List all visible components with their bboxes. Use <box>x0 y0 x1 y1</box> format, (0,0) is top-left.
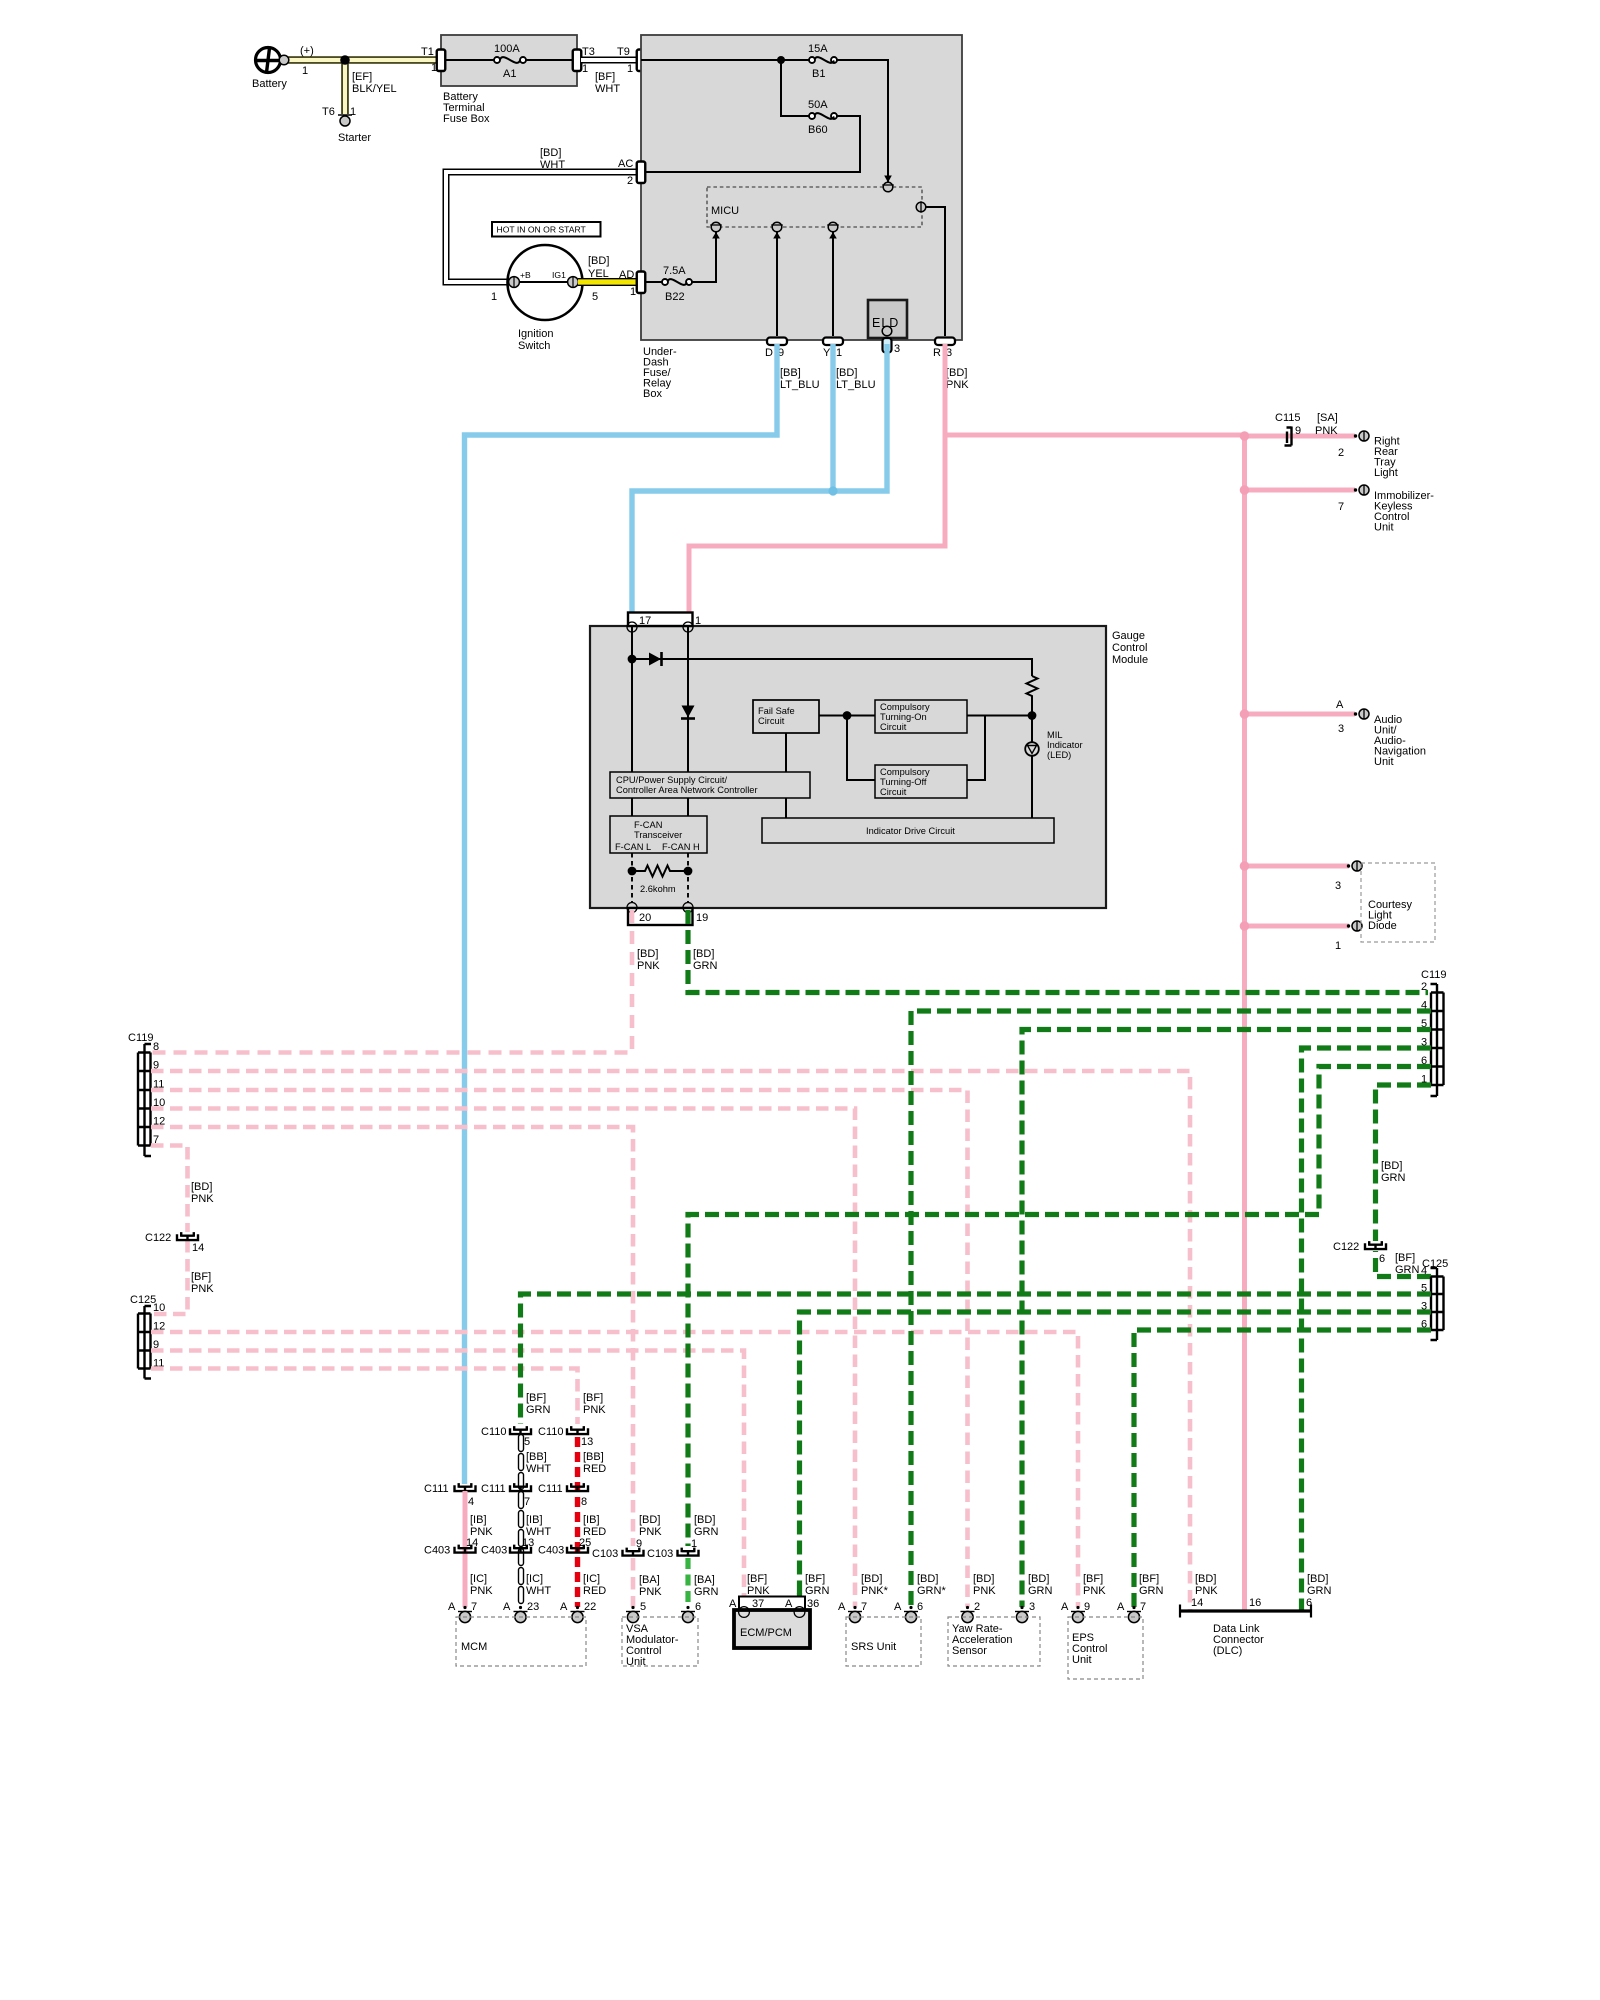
svg-text:Switch: Switch <box>518 340 550 352</box>
svg-text:Light: Light <box>1374 467 1398 479</box>
svg-text:1: 1 <box>627 63 633 75</box>
svg-text:7: 7 <box>471 1601 477 1613</box>
wire C119-12 to C103 / VSA <box>151 1127 633 1546</box>
svg-text:MICU: MICU <box>711 205 739 217</box>
wire C119-9 to DLC 14 <box>151 1071 1190 1611</box>
svg-text:Transceiver: Transceiver <box>634 830 682 840</box>
svg-text:C122: C122 <box>145 1232 171 1244</box>
battery terminal fuse box <box>441 35 577 86</box>
courtesy light diode box <box>1361 863 1435 942</box>
svg-text:[BF]: [BF] <box>595 71 615 83</box>
junction battery/starter <box>340 55 350 65</box>
wire pin1 down <box>687 626 689 772</box>
junction node B1/B60 <box>777 56 785 64</box>
svg-text:AD: AD <box>619 269 634 281</box>
svg-text:1: 1 <box>431 62 437 74</box>
svg-text:[BF]: [BF] <box>747 1573 767 1585</box>
top pin connector 17/1 <box>628 613 693 627</box>
svg-text:Indicator: Indicator <box>1047 740 1083 750</box>
wire fail safe down to CPU <box>785 733 787 772</box>
connector T1 <box>437 50 446 72</box>
connector C403 pin 13 <box>510 1545 531 1554</box>
svg-text:[BD]: [BD] <box>637 948 658 960</box>
wire C119r-4 to SRS green <box>911 1011 1431 1607</box>
svg-text:9: 9 <box>1295 425 1301 437</box>
wire C119r-1 to C122 to C125r-4 <box>1376 1085 1432 1277</box>
wire C125-11 to C110 / MCM red column <box>151 1369 578 1425</box>
wire C119-10 to SRS <box>151 1109 855 1608</box>
svg-text:[BB]: [BB] <box>583 1451 604 1463</box>
svg-text:GRN: GRN <box>694 1526 719 1538</box>
svg-text:22: 22 <box>584 1601 596 1613</box>
svg-text:[BD]: [BD] <box>1381 1160 1402 1172</box>
svg-text:7: 7 <box>524 1496 530 1508</box>
svg-text:[BD]: [BD] <box>917 1573 938 1585</box>
svg-text:14: 14 <box>192 1242 204 1254</box>
SEC-G bottom components <box>424 1392 1332 1679</box>
CPU box <box>610 772 810 798</box>
F-CAN L node <box>628 867 637 876</box>
SRS box <box>846 1617 921 1666</box>
ECM terminal 37 <box>739 1607 750 1618</box>
fail safe circuit box <box>753 700 819 733</box>
terminal MCM A7 <box>458 1606 472 1623</box>
fuse B60 50A <box>809 113 815 119</box>
svg-text:Battery: Battery <box>252 78 287 90</box>
svg-text:C403: C403 <box>424 1545 450 1557</box>
svg-text:MIL: MIL <box>1047 730 1063 740</box>
svg-text:PNK: PNK <box>1195 1585 1218 1597</box>
svg-text:[BD]: [BD] <box>946 367 967 379</box>
svg-text:WHT: WHT <box>526 1585 551 1597</box>
svg-text:RED: RED <box>583 1463 606 1475</box>
F-CAN transceiver box <box>610 816 707 853</box>
connector C103 pin 9 <box>623 1548 644 1557</box>
wire C119r-5 to yaw green <box>1022 1030 1431 1608</box>
ignition switch <box>508 245 583 320</box>
svg-text:PNK: PNK <box>191 1193 214 1205</box>
wire on-circuit to LED node <box>967 715 1032 717</box>
connector C103 pin 1 <box>678 1548 699 1557</box>
svg-text:17: 17 <box>639 615 651 627</box>
svg-text:5: 5 <box>640 1601 646 1613</box>
svg-text:[BD]: [BD] <box>861 1573 882 1585</box>
svg-text:[BD]: [BD] <box>694 1514 715 1526</box>
svg-text:BLK/YEL: BLK/YEL <box>352 83 397 95</box>
svg-text:1: 1 <box>1335 940 1341 952</box>
connector C122 (left) 14 <box>177 1232 198 1241</box>
svg-text:6: 6 <box>1379 1253 1385 1265</box>
MICU terminal right (to R) <box>916 202 926 212</box>
svg-text:[BF]: [BF] <box>1083 1573 1103 1585</box>
svg-text:[SA]: [SA] <box>1317 412 1338 424</box>
rail branch right rear tray light <box>1245 434 1356 439</box>
terminal VSA 6 <box>681 1606 695 1623</box>
connector C110 pin 13 <box>567 1426 588 1435</box>
svg-text:GRN: GRN <box>526 1404 551 1416</box>
svg-text:(+): (+) <box>300 45 314 57</box>
terminal courtesy diode pin 3 <box>1347 861 1362 871</box>
svg-text:20: 20 <box>639 912 651 924</box>
svg-text:[IC]: [IC] <box>470 1573 487 1585</box>
svg-text:Circuit: Circuit <box>880 787 907 797</box>
svg-text:HOT IN ON OR START: HOT IN ON OR START <box>497 225 587 235</box>
bottom pin connector 20/19 <box>628 908 693 925</box>
rail branch immobilizer <box>1245 488 1356 493</box>
svg-text:Starter: Starter <box>338 132 371 144</box>
svg-text:A: A <box>560 1601 568 1613</box>
svg-text:1: 1 <box>836 347 842 359</box>
svg-text:Unit: Unit <box>1374 756 1394 768</box>
terminal EPS A9 <box>1071 1606 1085 1623</box>
svg-text:LT_BLU: LT_BLU <box>780 379 820 391</box>
SEC-C wires from box down, right pink rail and right components <box>465 344 1436 1611</box>
svg-text:[BA]: [BA] <box>694 1574 715 1586</box>
svg-text:RED: RED <box>583 1585 606 1597</box>
svg-text:Unit: Unit <box>1374 522 1394 534</box>
svg-text:PNK*: PNK* <box>861 1585 889 1597</box>
wire gauge pin 19 to C119 pin 2 <box>688 910 1428 993</box>
svg-text:[BF]: [BF] <box>1395 1252 1415 1264</box>
svg-text:2.6kohm: 2.6kohm <box>640 884 676 894</box>
svg-text:PNK: PNK <box>639 1586 662 1598</box>
wire MICU to R pin <box>926 207 945 336</box>
svg-text:C110: C110 <box>481 1426 506 1438</box>
indicator drive circuit box <box>762 818 1054 843</box>
svg-text:[BF]: [BF] <box>191 1271 211 1283</box>
wire AC white: box to ignition <box>446 172 637 282</box>
connector C110 pin 5 <box>510 1426 531 1435</box>
wire patch ECM 36 <box>797 1593 802 1609</box>
svg-text:A1: A1 <box>503 68 516 80</box>
svg-text:GRN: GRN <box>1381 1172 1406 1184</box>
EPS box <box>1068 1617 1143 1679</box>
wire CPU to indicator drive <box>785 798 787 818</box>
rail branch audio <box>1245 712 1356 717</box>
wires CPU to F-CAN <box>632 798 688 816</box>
svg-text:50A: 50A <box>808 99 828 111</box>
MICU terminal bottom 2 (to D) <box>772 222 782 232</box>
wire pin17 down <box>631 626 633 772</box>
svg-text:7: 7 <box>861 1601 867 1613</box>
resistor R1 <box>1027 676 1038 716</box>
svg-text:7.5A: 7.5A <box>663 265 686 277</box>
svg-text:ECM/PCM: ECM/PCM <box>740 1627 792 1639</box>
terminal MCM A22 <box>571 1606 585 1623</box>
wire MICU to Y pin <box>832 232 834 336</box>
ECM connector row <box>739 1597 805 1611</box>
svg-text:[BF]: [BF] <box>805 1573 825 1585</box>
svg-text:(LED): (LED) <box>1047 750 1071 760</box>
svg-text:PNK: PNK <box>747 1585 770 1597</box>
svg-text:GRN: GRN <box>805 1585 830 1597</box>
svg-text:7: 7 <box>1338 501 1344 513</box>
svg-text:C403: C403 <box>481 1545 507 1557</box>
wire gauge pin 20 to C119 pin 8 <box>151 910 632 1053</box>
svg-text:+B: +B <box>520 270 531 280</box>
DLC connector bar <box>1180 1609 1311 1612</box>
wire MICU to D pin <box>776 232 778 336</box>
svg-text:13: 13 <box>581 1436 593 1448</box>
wire IB PNK <box>463 1491 468 1607</box>
svg-text:A: A <box>1117 1601 1125 1613</box>
wire D to MCM: blue long run <box>465 344 778 1484</box>
svg-text:1: 1 <box>302 65 308 77</box>
svg-text:[IB]: [IB] <box>583 1514 600 1526</box>
svg-text:Unit: Unit <box>1072 1654 1092 1666</box>
svg-text:16: 16 <box>1249 1597 1261 1609</box>
svg-text:C119: C119 <box>1421 969 1446 981</box>
svg-text:B22: B22 <box>665 291 685 303</box>
svg-text:[EF]: [EF] <box>352 71 372 83</box>
svg-text:Fuse Box: Fuse Box <box>443 113 490 125</box>
wire battery to T1 (BLK/YEL) <box>283 56 437 64</box>
svg-text:Turning-Off: Turning-Off <box>880 777 927 787</box>
svg-text:15A: 15A <box>808 43 828 55</box>
junction blue <box>828 486 837 495</box>
wire fail safe to junction <box>819 715 875 717</box>
HOT IN ON OR START <box>492 222 601 237</box>
compulsory turning-off circuit box <box>875 765 967 798</box>
svg-text:Ignition: Ignition <box>518 328 553 340</box>
wire T3 to T9 (WHT) <box>581 57 637 64</box>
svg-text:Control: Control <box>1112 642 1147 654</box>
wire R pink down and to rail <box>689 344 945 623</box>
terminal immobilizer pin 7 <box>1354 485 1369 495</box>
svg-text:6: 6 <box>1306 1597 1312 1609</box>
svg-text:(DLC): (DLC) <box>1213 1645 1242 1657</box>
svg-text:C103: C103 <box>592 1548 618 1560</box>
svg-text:F-CAN L: F-CAN L <box>615 842 651 852</box>
svg-text:5: 5 <box>592 291 598 303</box>
wire BA GRN <box>685 1558 690 1607</box>
svg-text:C103: C103 <box>647 1548 673 1560</box>
svg-text:1: 1 <box>695 615 701 627</box>
svg-text:SRS Unit: SRS Unit <box>851 1641 896 1653</box>
VSA box <box>622 1617 698 1666</box>
dashed wires below F-CAN <box>632 853 688 903</box>
pin R 3 <box>935 338 955 346</box>
SEC-B under-dash fuse box and internals <box>618 35 962 400</box>
starter terminal T6 <box>338 114 352 116</box>
svg-text:Fail Safe: Fail Safe <box>758 706 795 716</box>
svg-text:4: 4 <box>468 1496 474 1508</box>
svg-text:C119: C119 <box>128 1032 153 1044</box>
svg-text:C403: C403 <box>538 1545 564 1557</box>
svg-text:A: A <box>503 1601 511 1613</box>
right pink rail down to DLC 16 <box>1242 435 1247 1611</box>
svg-text:[BF]: [BF] <box>526 1392 546 1404</box>
terminal courtesy diode pin 1 <box>1347 921 1362 931</box>
svg-text:A: A <box>448 1601 456 1613</box>
svg-text:1: 1 <box>691 1538 697 1550</box>
connector C115 <box>1285 427 1292 446</box>
svg-text:AC: AC <box>618 158 633 170</box>
svg-text:[BF]: [BF] <box>583 1392 603 1404</box>
svg-text:[BD]: [BD] <box>191 1181 212 1193</box>
svg-text:C111: C111 <box>481 1483 506 1495</box>
connector C403 pin 14 <box>455 1545 476 1554</box>
ELD terminal <box>882 326 892 336</box>
svg-text:1: 1 <box>630 286 636 298</box>
under-dash fuse/relay box <box>641 35 962 340</box>
wire Y to blue junction <box>830 344 835 491</box>
wire inside battery fuse box <box>441 59 577 61</box>
svg-text:[BD]: [BD] <box>836 367 857 379</box>
svg-text:[IC]: [IC] <box>526 1573 543 1585</box>
svg-text:10: 10 <box>153 1302 165 1314</box>
svg-text:[IC]: [IC] <box>583 1573 600 1585</box>
wire BB RED <box>575 1437 580 1607</box>
connector T9 <box>637 50 646 72</box>
svg-text:Unit: Unit <box>626 1656 646 1668</box>
terminal SRS A6 <box>904 1606 918 1623</box>
svg-text:PNK: PNK <box>1315 425 1338 437</box>
diode D1 right <box>632 659 1032 676</box>
svg-text:F-CAN: F-CAN <box>634 820 662 830</box>
svg-text:[BD]: [BD] <box>639 1514 660 1526</box>
wire BA PNK <box>631 1558 636 1607</box>
terminal EPS A7 <box>1127 1606 1141 1623</box>
svg-text:1: 1 <box>350 106 356 118</box>
svg-text:B1: B1 <box>812 68 825 80</box>
connector C122 (right) 6 <box>1365 1241 1386 1250</box>
svg-text:Y: Y <box>823 347 831 359</box>
svg-text:F-CAN H: F-CAN H <box>662 842 700 852</box>
svg-text:6: 6 <box>695 1601 701 1613</box>
rail branch courtesy diode 1 <box>1245 924 1350 929</box>
svg-text:3: 3 <box>1338 723 1344 735</box>
wire junction down to off-circuit <box>847 716 875 781</box>
svg-text:Compulsory: Compulsory <box>880 767 930 777</box>
svg-text:C111: C111 <box>538 1483 563 1495</box>
svg-text:1: 1 <box>491 291 497 303</box>
svg-text:Circuit: Circuit <box>758 716 785 726</box>
svg-text:C122: C122 <box>1333 1241 1359 1253</box>
svg-text:MCM: MCM <box>461 1641 487 1653</box>
pin Y 1 <box>823 338 843 346</box>
terminal SRS A7 <box>848 1606 862 1623</box>
wire B60 branch <box>645 60 860 172</box>
svg-text:14: 14 <box>1191 1597 1203 1609</box>
connector C111 pin 8 <box>567 1483 588 1492</box>
MICU terminal top (from B1) <box>883 182 893 192</box>
F-CAN H node <box>684 867 693 876</box>
wire ELD 3 to gauge 17 blue <box>632 344 887 623</box>
connector AC pin 2 <box>637 162 646 184</box>
svg-text:Controller Area Network Contro: Controller Area Network Controller <box>616 785 758 795</box>
svg-text:[BA]: [BA] <box>639 1574 660 1586</box>
svg-text:2: 2 <box>1338 447 1344 459</box>
wire LED to indicator drive <box>1031 756 1033 818</box>
terminal MCM A23 <box>514 1606 528 1623</box>
connector C111 pin 7 <box>510 1483 531 1492</box>
svg-text:2: 2 <box>974 1601 980 1613</box>
svg-text:GRN: GRN <box>693 960 718 972</box>
fuse A1 100A <box>494 57 500 63</box>
svg-text:WHT: WHT <box>595 83 620 95</box>
wire C125-9 to ECM 37 <box>151 1351 744 1606</box>
svg-text:19: 19 <box>696 912 708 924</box>
svg-text:PNK: PNK <box>637 960 660 972</box>
ECM/PCM box <box>734 1610 810 1648</box>
resistor 2.6kohm <box>632 866 688 877</box>
svg-text:8: 8 <box>581 1496 587 1508</box>
svg-text:23: 23 <box>527 1601 539 1613</box>
svg-text:T3: T3 <box>582 46 595 58</box>
svg-text:[BD]: [BD] <box>540 147 561 159</box>
wire T9 to B1 fuse to MICU <box>641 60 888 182</box>
svg-text:PNK: PNK <box>973 1585 996 1597</box>
svg-text:C111: C111 <box>424 1483 449 1495</box>
fuse B1 15A <box>809 57 815 63</box>
rail branch courtesy diode 3 <box>1245 864 1350 869</box>
terminal yaw 2 <box>961 1606 975 1623</box>
svg-text:Circuit: Circuit <box>880 722 907 732</box>
svg-text:Gauge: Gauge <box>1112 630 1145 642</box>
svg-text:T6: T6 <box>322 106 335 118</box>
svg-text:3: 3 <box>894 343 900 355</box>
ECM terminal 36 <box>794 1607 805 1618</box>
wire C119-7 to C122 to C125-10 <box>151 1146 188 1315</box>
svg-text:LT_BLU: LT_BLU <box>836 379 876 391</box>
svg-text:1: 1 <box>582 63 588 75</box>
svg-text:PNK: PNK <box>639 1526 662 1538</box>
SEC-A battery / starter / ignition <box>252 35 645 352</box>
svg-text:5: 5 <box>524 1436 530 1448</box>
svg-text:PNK: PNK <box>1083 1585 1106 1597</box>
wire IG1 to AD (YEL) <box>578 278 637 286</box>
svg-text:4: 4 <box>1421 1265 1427 1277</box>
wire C125-12 to EPS <box>151 1332 1078 1607</box>
svg-text:Turning-On: Turning-On <box>880 712 927 722</box>
wire C125r-5 to C110 / MCM white column <box>521 1294 1432 1424</box>
svg-text:[BD]: [BD] <box>973 1573 994 1585</box>
wire C119-11 to yaw sensor <box>151 1090 968 1607</box>
svg-text:R: R <box>933 347 941 359</box>
svg-text:GRN: GRN <box>1028 1585 1053 1597</box>
connector T3 <box>573 50 582 72</box>
svg-text:C110: C110 <box>538 1426 563 1438</box>
wire off-circuit up to node <box>967 716 985 781</box>
svg-text:D: D <box>765 347 773 359</box>
svg-text:100A: 100A <box>494 43 520 55</box>
connector C111 pin 4 <box>455 1483 476 1492</box>
svg-text:Module: Module <box>1112 654 1148 666</box>
svg-text:PNK: PNK <box>583 1404 606 1416</box>
connector C403 pin 25 <box>567 1545 588 1554</box>
SEC-D gauge control module <box>590 613 1148 926</box>
svg-text:GRN: GRN <box>1139 1585 1164 1597</box>
junction R1/LED <box>1028 711 1037 720</box>
svg-text:Compulsory: Compulsory <box>880 702 930 712</box>
svg-text:B60: B60 <box>808 124 828 136</box>
svg-text:Indicator Drive Circuit: Indicator Drive Circuit <box>866 826 955 836</box>
svg-text:[BD]: [BD] <box>1028 1573 1049 1585</box>
svg-text:A: A <box>838 1601 846 1613</box>
svg-text:GRN: GRN <box>1395 1264 1420 1276</box>
svg-text:9: 9 <box>1084 1601 1090 1613</box>
MICU dashed box <box>707 187 922 227</box>
svg-text:GRN: GRN <box>1307 1585 1332 1597</box>
terminal right rear tray light pin 2 <box>1354 431 1369 441</box>
svg-text:6: 6 <box>917 1601 923 1613</box>
junction <box>628 655 637 664</box>
MIL indicator LED <box>1031 716 1033 743</box>
svg-text:Diode: Diode <box>1368 920 1397 932</box>
svg-text:WHT: WHT <box>540 159 565 171</box>
svg-text:[BD]: [BD] <box>1195 1573 1216 1585</box>
